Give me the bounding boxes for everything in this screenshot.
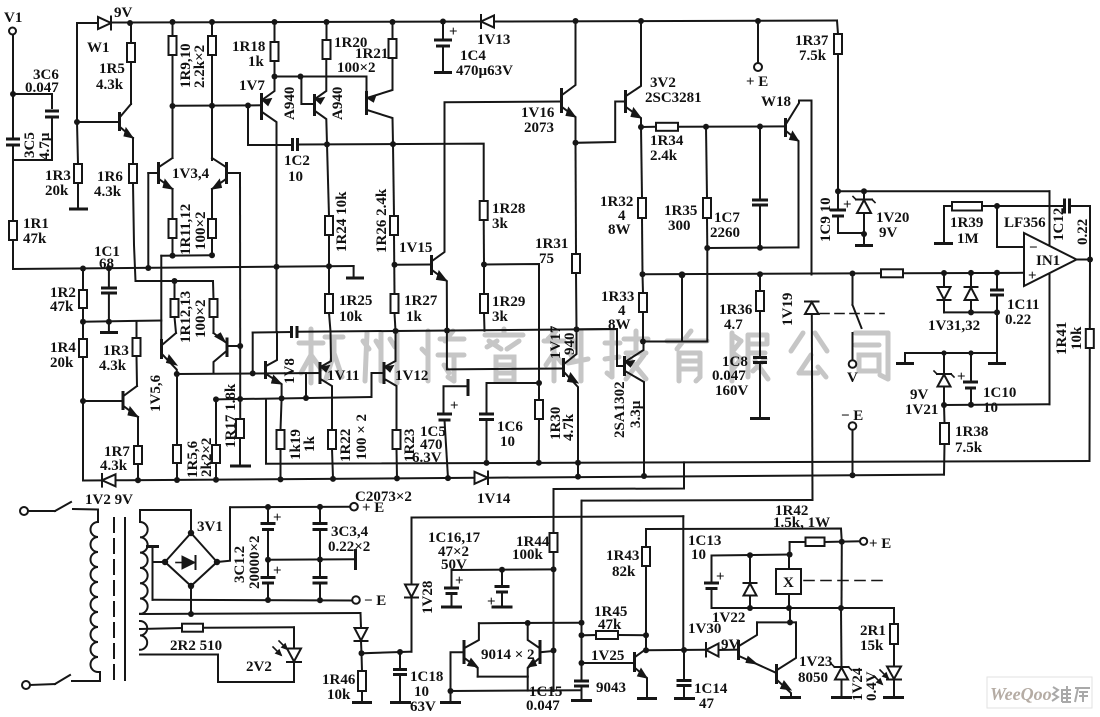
svg-text:47k: 47k <box>23 231 47 247</box>
node bus x83 <box>80 266 86 272</box>
capacitor 1C5 <box>467 379 470 396</box>
dashed actuator from X <box>804 580 884 582</box>
wire dc plus y507 <box>231 506 351 509</box>
top supply rail +9V <box>77 22 98 24</box>
resistor 1R28 <box>480 201 488 220</box>
transistor Q2 (1V2 stage) <box>83 400 123 402</box>
bias rail wire y331 <box>253 331 292 334</box>
capacitor 1C1 <box>108 268 110 287</box>
svg-text:1R32: 1R32 <box>600 194 633 210</box>
svg-text:1R12,13: 1R12,13 <box>178 291 194 343</box>
wire 1V6 base to x240 <box>227 345 240 347</box>
svg-text:2SA1302: 2SA1302 <box>612 381 628 438</box>
node 1C18 <box>397 649 403 655</box>
svg-text:1R34: 1R34 <box>650 133 684 149</box>
resistor 1R22 <box>328 430 336 449</box>
svg-text:8050: 8050 <box>798 670 828 686</box>
transistor 1V4 <box>225 162 228 184</box>
capacitor 1C8 <box>753 356 767 359</box>
svg-text:1R37: 1R37 <box>795 33 829 49</box>
node rail x758 <box>755 18 761 24</box>
watermark company name <box>299 329 888 383</box>
svg-text:1R3: 1R3 <box>103 343 129 359</box>
resistor 1R38 <box>940 423 949 444</box>
svg-text:1C18: 1C18 <box>410 669 443 685</box>
svg-text:WeeQoo: WeeQoo <box>990 684 1052 704</box>
svg-text:4.3k: 4.3k <box>96 77 124 93</box>
svg-text:20000×2: 20000×2 <box>247 535 263 589</box>
resistor 1R31 <box>575 143 578 254</box>
svg-text:+: + <box>273 510 282 526</box>
node bus x277 <box>274 264 280 270</box>
sense chain x581 <box>581 501 583 680</box>
wire V1 down <box>12 35 14 94</box>
svg-text:+: + <box>487 594 496 610</box>
node rail x443 <box>440 19 446 25</box>
node A940b collector on 1C2 wire <box>390 141 396 147</box>
svg-text:100×2: 100×2 <box>337 60 376 76</box>
svg-text:+: + <box>273 563 282 579</box>
vertical x240 <box>239 346 241 419</box>
svg-text:+: + <box>957 369 966 385</box>
node 1V7 emitter / 1R18 <box>272 74 278 80</box>
wire y399 driver base bus <box>216 397 372 399</box>
node collector 1V25 <box>643 647 649 653</box>
wire y264 to x539 <box>484 264 539 400</box>
bus -E wire A y463 <box>266 399 1090 464</box>
node bus x148 <box>145 265 151 271</box>
diode 1V13 <box>481 16 494 28</box>
wire 1C9 to zener bottom <box>838 232 864 234</box>
node 1k19 bottom <box>278 476 284 482</box>
svg-text:1V13: 1V13 <box>477 32 510 48</box>
wire AC2 y614 <box>140 613 361 614</box>
wire 2V2 bottom y682 <box>218 655 294 683</box>
relay coil X <box>776 569 801 594</box>
svg-text:9V: 9V <box>721 637 740 653</box>
transistor 1V6 <box>226 338 229 358</box>
svg-text:10: 10 <box>691 547 706 563</box>
resistor 1R35 <box>706 127 707 198</box>
svg-text:X: X <box>783 575 794 591</box>
wire y281 to lower mirrors <box>136 280 214 282</box>
resistor 1R42 <box>790 541 806 543</box>
svg-text:1V2 9V: 1V2 9V <box>85 492 133 508</box>
svg-text:A940: A940 <box>330 87 346 120</box>
chain 1R26/1R27 <box>393 144 394 216</box>
node 2k2 b <box>213 477 219 483</box>
svg-text:9V: 9V <box>879 225 898 241</box>
svg-text:2V2: 2V2 <box>246 659 272 675</box>
wire relay sense y500 <box>582 499 813 502</box>
wire to 3V2 base <box>576 102 626 143</box>
wire 1R6 bottom long drop to y281 <box>133 183 136 281</box>
resistor 1R11 <box>169 219 177 238</box>
resistor 1R5,6 first 2k2 <box>173 445 181 463</box>
svg-text:9014 × 2: 9014 × 2 <box>481 647 535 663</box>
svg-text:0.22: 0.22 <box>1075 219 1091 245</box>
svg-text:2.2k×2: 2.2k×2 <box>192 45 208 88</box>
transformer secondary 1 <box>140 522 148 614</box>
svg-text:0.047: 0.047 <box>526 698 560 714</box>
svg-text:1C9 10: 1C9 10 <box>818 197 834 242</box>
resistor 1R27 <box>391 294 399 313</box>
svg-text:1M: 1M <box>957 231 979 247</box>
svg-text:4.7µ: 4.7µ <box>37 132 53 160</box>
transistor Q1 (1R5/1R6 stage) <box>77 121 120 123</box>
wire secondary2 bottom <box>140 654 218 656</box>
svg-text:+ E: + E <box>869 536 891 552</box>
capacitor 1C11 <box>994 270 1000 276</box>
svg-text:4.7k: 4.7k <box>561 413 577 441</box>
svg-text:0.22×2: 0.22×2 <box>328 539 370 555</box>
svg-text:10: 10 <box>414 684 429 700</box>
svg-text:1C12: 1C12 <box>1051 208 1067 241</box>
transistor 9014 b <box>539 640 542 664</box>
zener 1V21 <box>941 350 946 355</box>
svg-text:1V8: 1V8 <box>282 358 298 384</box>
wire 1V17 collector to 2SA base <box>577 329 625 366</box>
resistor 1R26 <box>390 216 398 235</box>
node base Q1 <box>74 119 80 125</box>
capacitor 1C4 <box>442 22 444 40</box>
node 1R7 bottom <box>135 477 141 483</box>
svg-text:1R36: 1R36 <box>719 302 753 318</box>
svg-text:1V14: 1V14 <box>477 491 511 507</box>
svg-text:1V3,4: 1V3,4 <box>172 166 210 182</box>
resistor 1R36 <box>757 271 763 277</box>
svg-text:3V1: 3V1 <box>197 519 223 535</box>
resistor 1R43 <box>645 529 647 547</box>
secondary top lead <box>140 510 191 533</box>
svg-text:1C14: 1C14 <box>694 681 728 697</box>
svg-text:1V16: 1V16 <box>521 105 555 121</box>
secondary mid lead with tap bar <box>146 545 159 548</box>
base riser 1V3 x148 <box>147 173 149 268</box>
svg-text:1R4: 1R4 <box>50 340 76 356</box>
resistor 1R1 <box>9 221 17 240</box>
resistor 1R12 <box>171 299 179 317</box>
node 2SA emitter on B <box>641 473 647 479</box>
svg-text:3k: 3k <box>492 309 509 325</box>
diode 1V14 <box>475 472 489 484</box>
resistor 2R1 <box>893 608 895 624</box>
wire rejoin 3C5/3C6 <box>13 159 52 161</box>
transistor 1V9 A940 <box>313 94 316 116</box>
wire 1R43 top y529 to +E drop <box>646 529 842 543</box>
svg-text:10k: 10k <box>339 309 363 325</box>
diode 1V28 <box>411 518 413 585</box>
terminal -E bottom <box>352 596 360 604</box>
node y653 x362 <box>359 650 365 656</box>
svg-text:1R17 1.8k: 1R17 1.8k <box>223 383 239 448</box>
svg-text:LF356: LF356 <box>1004 215 1046 231</box>
bridge bottom lead <box>190 586 192 614</box>
svg-text:2R2 510: 2R2 510 <box>170 638 222 654</box>
svg-text:8W: 8W <box>608 317 631 333</box>
svg-text:W1: W1 <box>87 40 110 56</box>
wire y322 to riser <box>83 321 161 322</box>
svg-text:2.4k: 2.4k <box>650 148 678 164</box>
transistor 2SA1302 <box>623 356 626 376</box>
transistor 1V10 A940 <box>365 91 368 115</box>
wire y341 <box>643 248 707 342</box>
transistor 1V8 <box>264 361 267 379</box>
diode 1V22 <box>749 556 751 584</box>
node 1V3 collector <box>170 103 176 109</box>
svg-text:15k: 15k <box>860 638 884 654</box>
ground rail y353 <box>905 352 997 354</box>
terminal +E bottom <box>350 503 358 511</box>
node 1C5 bottom <box>445 475 451 481</box>
tail riser x161 <box>160 256 162 339</box>
svg-text:1V12: 1V12 <box>395 368 428 384</box>
svg-text:1C11: 1C11 <box>1007 297 1040 313</box>
svg-text:0.047: 0.047 <box>712 368 746 384</box>
main input bus y267 <box>13 266 354 269</box>
svg-text:1R25: 1R25 <box>339 293 372 309</box>
resistor 1R2 <box>82 269 84 291</box>
capacitor 1C10 <box>968 350 973 355</box>
ground under 1V20 <box>863 235 865 244</box>
node 1V17 emitter on A <box>575 460 581 466</box>
collectors wire y622 <box>757 621 796 623</box>
svg-text:100k: 100k <box>512 547 544 563</box>
ground elbow at bus end <box>353 266 355 277</box>
svg-text:4.3k: 4.3k <box>100 458 128 474</box>
capacitor 1C14 <box>683 650 685 679</box>
node 2k2 a <box>174 477 180 483</box>
svg-text:3C1.2: 3C1.2 <box>232 546 248 583</box>
collectors wire y623 <box>479 622 582 625</box>
capacitor 3C2 <box>265 557 271 563</box>
resistor 1R6 <box>132 138 134 164</box>
wire y405 <box>944 403 1050 406</box>
transistor 3V2 <box>624 90 627 113</box>
svg-text:1V5,6: 1V5,6 <box>148 374 164 412</box>
wire y691 <box>451 689 582 692</box>
svg-text:470µ63V: 470µ63V <box>456 63 513 79</box>
node 1C7 top <box>757 124 763 130</box>
node 1R33 bottom <box>640 339 646 345</box>
svg-text:0.047: 0.047 <box>25 80 59 96</box>
mid rail to chassis <box>268 558 354 561</box>
svg-text:1V22: 1V22 <box>712 610 745 626</box>
capacitor 3C4 <box>317 557 323 563</box>
resistor 1R9 <box>169 36 177 55</box>
node y248 x707 <box>704 245 710 251</box>
transistor 1V16 <box>560 88 563 113</box>
transistor 1V15 <box>430 255 433 275</box>
switch blade bottom <box>55 675 70 684</box>
svg-text:1R26 2.4k: 1R26 2.4k <box>374 188 390 253</box>
svg-text:160V: 160V <box>715 383 749 399</box>
transformer secondary 2 <box>140 621 147 650</box>
hook 1C2 from 1V7 base <box>248 106 292 146</box>
node 1V8 base <box>250 370 256 376</box>
resistor 1R13 <box>210 299 218 317</box>
svg-text:1V7: 1V7 <box>239 78 265 94</box>
wire 2R2 loop top y628 <box>140 628 182 629</box>
svg-text:1k: 1k <box>406 309 423 325</box>
node rail x392.5 <box>390 19 396 25</box>
svg-text:1R5: 1R5 <box>99 61 125 77</box>
svg-text:1V21: 1V21 <box>905 402 938 418</box>
node base Q2 x83 <box>80 398 86 404</box>
resistor 1R8 (1R3 4.3k) <box>133 338 141 356</box>
node 1R34/1R35 <box>703 124 709 130</box>
node 1R2/1R4 <box>80 319 86 325</box>
node 3V2 emitter <box>638 124 644 130</box>
svg-text:+ E: + E <box>746 74 768 90</box>
ground below y691 <box>450 691 452 701</box>
diode 1V2 <box>102 474 116 486</box>
svg-text:10k: 10k <box>327 687 351 703</box>
svg-text:1R11,12: 1R11,12 <box>178 204 194 255</box>
resistor 1R7 <box>137 417 139 446</box>
dashed actuation line <box>820 313 884 315</box>
svg-text:1C4: 1C4 <box>460 48 486 64</box>
stub x682 <box>681 275 683 342</box>
capacitor 3C6 <box>45 110 59 113</box>
relay block top wire y555 <box>712 555 790 556</box>
svg-text:1R31: 1R31 <box>535 236 568 252</box>
svg-text:10k: 10k <box>1069 326 1085 350</box>
svg-text:1V25: 1V25 <box>591 648 624 664</box>
resistor 1R3 20k <box>77 122 78 164</box>
watermark WeeQoo维库 <box>987 677 1092 708</box>
resistor 1R46 <box>361 653 364 671</box>
wire 1R39 y206 <box>944 205 952 207</box>
node rail x640 <box>638 18 644 24</box>
resistor 1R24 <box>325 216 333 235</box>
svg-text:1k: 1k <box>302 436 318 453</box>
ground for 1R39 <box>943 206 945 242</box>
svg-text:1R43: 1R43 <box>606 548 639 564</box>
capacitor 1C12 <box>997 205 1064 207</box>
node rail x574 <box>573 18 579 24</box>
node 1R28/1R29 <box>481 262 487 268</box>
chain 1R32/1R33 <box>641 127 642 198</box>
transistor 1V5 <box>160 339 163 359</box>
svg-text:0.4V: 0.4V <box>864 671 880 701</box>
zener 1V24 <box>835 668 848 680</box>
svg-text:1V28: 1V28 <box>420 581 436 614</box>
svg-text:47k: 47k <box>598 617 622 633</box>
svg-text:8W: 8W <box>608 222 631 238</box>
transistor 8050 b <box>775 664 778 684</box>
wire 1C2 to 1R28 corner <box>298 144 484 201</box>
ground under 1R17 <box>230 465 251 468</box>
output bus wire B y477 <box>83 479 102 481</box>
node rail x172.5 <box>170 19 176 25</box>
capacitor 1C16 <box>451 570 453 587</box>
jog x684 <box>554 462 685 517</box>
diode inside bridge <box>182 556 195 569</box>
svg-text:+: + <box>449 24 458 40</box>
wire x83 down to B bus <box>82 401 84 481</box>
svg-text:1C10: 1C10 <box>983 385 1016 401</box>
wire to 3C6 branch <box>13 94 52 108</box>
svg-text:+: + <box>1028 268 1037 284</box>
resistor 1R32 <box>638 198 646 218</box>
wire +E protection y517 <box>412 516 684 517</box>
svg-text:3k: 3k <box>492 216 509 232</box>
svg-text:3V2: 3V2 <box>650 75 676 91</box>
svg-text:+ E: + E <box>362 500 384 516</box>
transistor W18 <box>784 118 787 137</box>
svg-text:3C3,4: 3C3,4 <box>331 524 369 540</box>
resistor 1R33 <box>639 293 647 312</box>
node switch branch <box>850 271 856 277</box>
wire y248 <box>707 246 798 249</box>
svg-text:1V31,32: 1V31,32 <box>928 318 980 334</box>
node 1R10 line on base wire <box>209 103 215 109</box>
transistor 9014 a <box>463 640 466 664</box>
transistor 8050 a <box>737 640 740 660</box>
capacitor 3C5 <box>12 94 14 138</box>
svg-text:9V: 9V <box>910 387 929 403</box>
resistor 1R20 <box>323 40 331 59</box>
capacitor relay electrolytic <box>711 556 713 583</box>
svg-text:1R46: 1R46 <box>322 672 356 688</box>
svg-text:4.3k: 4.3k <box>94 184 122 200</box>
wire 9V aux y191 <box>838 190 1050 192</box>
svg-text:4.7: 4.7 <box>724 317 743 333</box>
resistor 1k19 <box>277 430 285 449</box>
svg-text:0.22: 0.22 <box>1005 312 1031 328</box>
tail wire y255 <box>161 254 212 256</box>
diode 1V31 <box>941 270 947 276</box>
transformer primary winding <box>91 522 98 672</box>
resistor 1R45 horizontal <box>582 634 597 636</box>
svg-text:1V20: 1V20 <box>876 210 909 226</box>
svg-text:47k: 47k <box>50 299 74 315</box>
wire dc minus y600 <box>153 599 353 602</box>
node rail x326.5 <box>324 19 330 25</box>
svg-text:1R27: 1R27 <box>404 293 438 309</box>
relay bottom wire y608 <box>712 607 895 609</box>
svg-text:1C6: 1C6 <box>497 419 523 435</box>
svg-text:1R28: 1R28 <box>492 201 525 217</box>
svg-text:20k: 20k <box>45 183 69 199</box>
resistor 1R29 <box>480 294 488 313</box>
wire y652 <box>362 652 412 654</box>
transistor 1V3 <box>157 162 160 184</box>
svg-text:2SC3281: 2SC3281 <box>645 90 702 106</box>
emitter bus wire y374 <box>177 373 319 374</box>
svg-text:4.3k: 4.3k <box>99 358 127 374</box>
resistor 1R4 <box>79 339 87 357</box>
AC terminal bottom <box>22 681 30 689</box>
emitters wire y676 <box>478 676 528 678</box>
LED indicator <box>887 667 901 680</box>
capacitor 1C3 series <box>290 326 293 338</box>
svg-text:1R39: 1R39 <box>950 215 983 231</box>
svg-text:20k: 20k <box>50 355 74 371</box>
diode 1V32 <box>968 270 974 276</box>
resistor 1R18 <box>271 42 279 61</box>
resistor 1R25 <box>325 294 333 313</box>
svg-text:IN1: IN1 <box>1036 253 1060 269</box>
transistor 1V12 <box>383 362 386 384</box>
svg-text:1R35: 1R35 <box>664 203 697 219</box>
wire caps top y570 <box>452 568 554 571</box>
svg-text:2R1: 2R1 <box>860 623 886 639</box>
resistor 1R21 <box>389 39 397 58</box>
wire bridge plus <box>217 507 230 562</box>
svg-text:1R6: 1R6 <box>97 169 123 185</box>
